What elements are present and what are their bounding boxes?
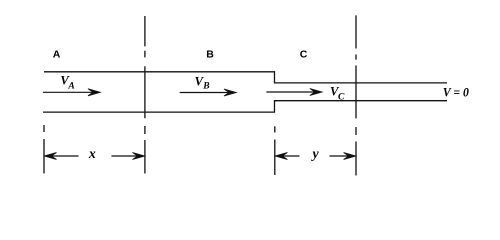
svg-text:V = 0: V = 0 (443, 86, 470, 100)
svg-text:y: y (311, 146, 320, 161)
dimension tick at x=44 (43, 125, 45, 174)
svg-text:B: B (206, 49, 214, 61)
x dimension left arrow (51, 155, 79, 157)
flow arrow V_B (180, 92, 230, 94)
svg-text:B: B (202, 82, 209, 92)
svg-text:A: A (67, 82, 74, 92)
svg-text:x: x (88, 146, 96, 161)
flow arrow V_C (266, 91, 316, 93)
dimension tick at x=274.8 (274, 126, 276, 175)
svg-text:A: A (53, 49, 61, 61)
x dimension right arrow (112, 155, 139, 157)
dashed boundary line between A and B at x=145 (144, 16, 146, 174)
pipe bottom wall (sections A,B then step up to C) (43, 101, 447, 112)
svg-text:C: C (338, 92, 345, 102)
svg-text:C: C (300, 49, 308, 61)
y dimension left arrow (282, 155, 300, 157)
y dimension right arrow (330, 155, 350, 157)
pipe top wall (sections A,B then step down to C) (44, 72, 447, 83)
flow arrow V_A (43, 91, 94, 93)
dashed boundary line in section C at x=356 (355, 15, 357, 175)
